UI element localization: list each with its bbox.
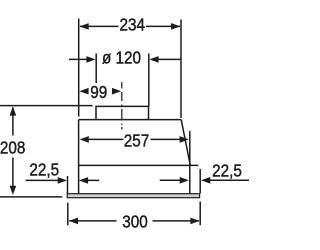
- dimension line 300: [69, 220, 199, 222]
- dimension line 234: [80, 25, 180, 27]
- hood body right vertical edge: [189, 131, 191, 194]
- arrowhead 22,5 right outer: [201, 177, 210, 184]
- arrowhead 234 left: [80, 23, 89, 30]
- arrowhead 22,5 left outer: [58, 177, 67, 184]
- svg-text:99: 99: [90, 82, 107, 102]
- extension line 234 right: [180, 20, 182, 119]
- svg-text:ø 120: ø 120: [102, 47, 141, 67]
- extension line 300 right: [199, 202, 201, 226]
- arrowhead 208 up: [10, 106, 17, 115]
- svg-text:22,5: 22,5: [212, 160, 242, 180]
- svg-text:234: 234: [119, 14, 145, 34]
- extension line 300 left: [67, 203, 69, 225]
- hood body top edge: [79, 119, 182, 121]
- svg-text:257: 257: [124, 130, 150, 150]
- svg-text:208: 208: [0, 137, 25, 157]
- arrowhead 99 right: [112, 88, 121, 95]
- arrowhead 99 left: [79, 88, 88, 95]
- extension line 234 left: [78, 19, 80, 117]
- arrowhead 234 right: [171, 23, 180, 30]
- hood body left edge: [78, 120, 80, 194]
- extension line d120 right: [148, 54, 150, 107]
- ceiling reference line left: [0, 105, 93, 107]
- dimension line d120: [69, 58, 181, 60]
- hood body shoulder line: [78, 164, 198, 166]
- svg-text:300: 300: [122, 212, 148, 232]
- dimension line 22,5 right: [160, 179, 249, 181]
- arrowhead d120 left: [86, 56, 95, 63]
- svg-text:22,5: 22,5: [29, 159, 59, 179]
- bottom reference line left: [0, 196, 62, 198]
- dimension line 22,5 left: [26, 179, 100, 181]
- arrowhead 22,5 right inner: [180, 177, 189, 184]
- hood body right diagonal edge: [181, 120, 190, 166]
- extension tick 22,5 left: [67, 176, 69, 193]
- dimension line 257: [88, 138, 181, 140]
- arrowhead 300 left: [69, 218, 78, 225]
- arrowhead d120 right: [149, 56, 158, 63]
- extension tick 22,5 right: [199, 169, 201, 194]
- duct collar: [96, 106, 149, 119]
- arrowhead 257 left: [80, 136, 89, 143]
- arrowhead 257 right: [180, 136, 189, 143]
- extension line d120 left: [95, 54, 97, 84]
- arrowhead 300 right: [190, 218, 199, 225]
- arrowhead 208 down: [10, 186, 17, 195]
- flange bottom bar: [67, 194, 199, 198]
- arrowhead 22,5 left inner: [79, 177, 88, 184]
- dimension line 208: [12, 108, 14, 189]
- centerline dash-dot: [121, 82, 123, 130]
